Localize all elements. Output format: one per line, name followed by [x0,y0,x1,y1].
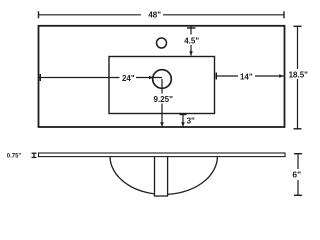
dimension 48 inch width [39,11,285,20]
label 0.75 inch thickness [7,154,22,160]
dimension 4.5 inch top edge to cutout [184,27,199,56]
faucet hole [157,38,167,48]
svg-text:6": 6" [292,169,301,179]
dimension 6 inch height [292,154,302,196]
dimension 18.5 inch depth [289,26,309,129]
countertop outline (top view) [39,26,285,127]
svg-text:9.25": 9.25" [154,95,174,104]
dimension 24 inch to drain center [39,74,162,83]
svg-text:14": 14" [240,72,253,81]
drain hole [153,70,172,89]
dimension 9.25 inch drain center to front [154,79,174,127]
svg-text:18.5": 18.5" [289,71,309,80]
svg-text:4.5": 4.5" [184,37,199,46]
svg-text:24": 24" [122,74,135,83]
thickness tick symbol [32,153,37,157]
sink cutout rectangle [109,57,215,114]
sink bowl (front view) [110,156,217,194]
svg-text:3": 3" [187,116,195,125]
drain pipe (front view) [155,156,168,196]
dimension 3 inch cutout to front edge [180,114,196,127]
dimension 14 inch cutout to right edge [216,72,284,81]
svg-text:48": 48" [148,11,161,20]
countertop slab (front view) [39,153,286,157]
svg-text:0.75": 0.75" [7,154,22,160]
